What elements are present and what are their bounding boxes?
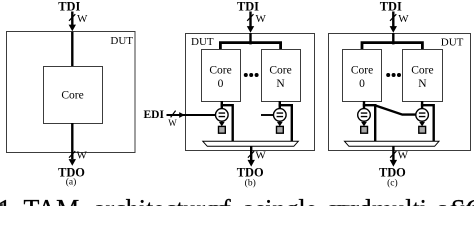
core box Core 0 (c) [343, 50, 382, 102]
arrowhead flag (c left) [361, 122, 367, 127]
svg-text:DUT: DUT [110, 35, 133, 47]
wire Core N output (c) [421, 101, 423, 109]
equals sign in comparator (c right) [419, 113, 426, 117]
svg-text:S: S [451, 195, 465, 206]
svg-text:C: C [466, 195, 474, 206]
svg-text:TDO: TDO [237, 165, 264, 179]
bus-width tick TDI (c) [390, 14, 396, 21]
svg-text:N: N [418, 78, 427, 90]
core box Core N (c) [403, 50, 443, 102]
wire EDI input [167, 114, 216, 116]
wire comparator to flag (c left) [363, 121, 365, 123]
wire TDI input (c) [392, 12, 394, 27]
error flag register (c right) [419, 126, 426, 133]
arrowhead TDI (c) [390, 26, 397, 33]
svg-text:W: W [256, 13, 267, 25]
svg-text:0: 0 [359, 78, 365, 90]
bus-width tick TDO (b) [248, 151, 254, 158]
arrowhead TDO (a) [69, 159, 76, 166]
arrowhead flag (c right) [419, 122, 425, 127]
comparator circle Core N (c) [416, 109, 429, 122]
wire TDI branch (b) [220, 43, 280, 49]
svg-text:W: W [255, 150, 266, 162]
svg-text:W: W [168, 118, 177, 128]
ellipsis dots (c) [386, 73, 390, 77]
bus-width tick TDO (a) [69, 151, 75, 158]
svg-text:TDI: TDI [237, 0, 259, 13]
core box Core N (b) [262, 50, 301, 102]
svg-text:TDO: TDO [379, 165, 406, 179]
bus-width tick TDI (a) [69, 14, 75, 21]
core box Core 0 (b) [202, 50, 241, 102]
comparator circle Core N (b) [274, 109, 287, 122]
wire TDI input (b) [249, 12, 251, 27]
wire crossover Core0 out to comparator N (c) [375, 105, 416, 114]
ellipsis dots (b) [244, 73, 248, 77]
DUT box (b) [186, 34, 315, 151]
DUT box (c) [329, 34, 471, 151]
wire TDI trunk (c) [392, 33, 394, 44]
wire TDO (b) [250, 146, 252, 160]
svg-text:Core: Core [351, 65, 373, 77]
bus-width tick EDI [171, 111, 176, 118]
svg-text:architectures: architectures [94, 195, 227, 206]
wire Core 0 output (c) [363, 101, 365, 109]
svg-text:W: W [398, 150, 409, 162]
TDO funnel (c) [345, 141, 440, 146]
arrowhead EDI [179, 112, 185, 118]
wire comparator to flag (c right) [421, 121, 423, 123]
svg-text:of: of [209, 195, 231, 206]
arrowhead flag (b left) [219, 122, 225, 127]
svg-text:TDI: TDI [380, 0, 402, 13]
error flag register (b left) [219, 126, 226, 133]
comparator circle Core 0 (b) [216, 109, 229, 122]
svg-text:TAM: TAM [24, 195, 80, 206]
TDO funnel (b) [203, 141, 298, 146]
equals sign in comparator (b left) [219, 113, 226, 117]
wire Core N output (b) [279, 101, 281, 109]
svg-text:W: W [77, 13, 88, 25]
svg-text:1.: 1. [0, 195, 18, 206]
wire TDI trunk (b) [249, 33, 251, 44]
arrowhead TDO (b) [248, 160, 255, 167]
svg-text:TDI: TDI [58, 0, 80, 13]
core box (a) [44, 67, 103, 124]
wire TDI to Core (a) [71, 32, 73, 66]
comparator circle Core 0 (c) [358, 109, 371, 122]
wire Core 0 output (b) [221, 101, 223, 109]
svg-text:(b): (b) [245, 178, 256, 189]
svg-text:a: a [243, 195, 255, 206]
error flag register (c left) [361, 126, 368, 133]
caption (clipped at bottom) [0, 195, 474, 224]
wire Core 0 output to bus (c) [363, 105, 375, 141]
arrowhead flag (b right) [277, 122, 283, 127]
svg-text:Core: Core [61, 90, 83, 102]
caption fragment g. [0, 204, 3, 207]
svg-text:W: W [398, 13, 409, 25]
svg-text:(c): (c) [387, 178, 398, 189]
error flag register (b right) [277, 126, 284, 133]
arrowhead TDI (a) [69, 25, 76, 32]
wire Core to TDO (a) [71, 123, 73, 159]
svg-text:Core: Core [411, 65, 433, 77]
equals sign in comparator (b right) [277, 113, 284, 117]
wire Core N output to bus (b) [279, 105, 292, 141]
wire TDO (c) [392, 146, 394, 160]
wire TDI input (a) [71, 12, 73, 26]
bus-width tick TDI (b) [247, 14, 253, 21]
svg-text:(a): (a) [66, 176, 77, 187]
wire Core N output to bus (c) [421, 105, 434, 141]
wire comparator to flag (b left) [221, 121, 223, 123]
wire EDI stub to comparator N (b) [261, 114, 274, 116]
wire comparator to flag (b right) [279, 121, 281, 123]
svg-text:Core: Core [209, 65, 231, 77]
DUT box (a) [7, 32, 136, 153]
svg-text:DUT: DUT [441, 36, 464, 48]
bus-width tick TDO (c) [390, 151, 396, 158]
arrowhead TDI (b) [247, 26, 254, 33]
arrowhead TDO (c) [390, 160, 397, 167]
svg-text:EDI: EDI [144, 109, 165, 121]
svg-text:and: and [334, 195, 372, 206]
wire Core 0 output to bus (b) [221, 105, 233, 141]
svg-text:DUT: DUT [191, 36, 214, 48]
wire TDI branch (c) [362, 43, 422, 49]
equals sign in comparator (c left) [361, 113, 368, 117]
svg-text:N: N [276, 78, 285, 90]
svg-text:Core: Core [269, 65, 291, 77]
svg-text:W: W [77, 150, 88, 162]
svg-text:0: 0 [218, 78, 224, 90]
